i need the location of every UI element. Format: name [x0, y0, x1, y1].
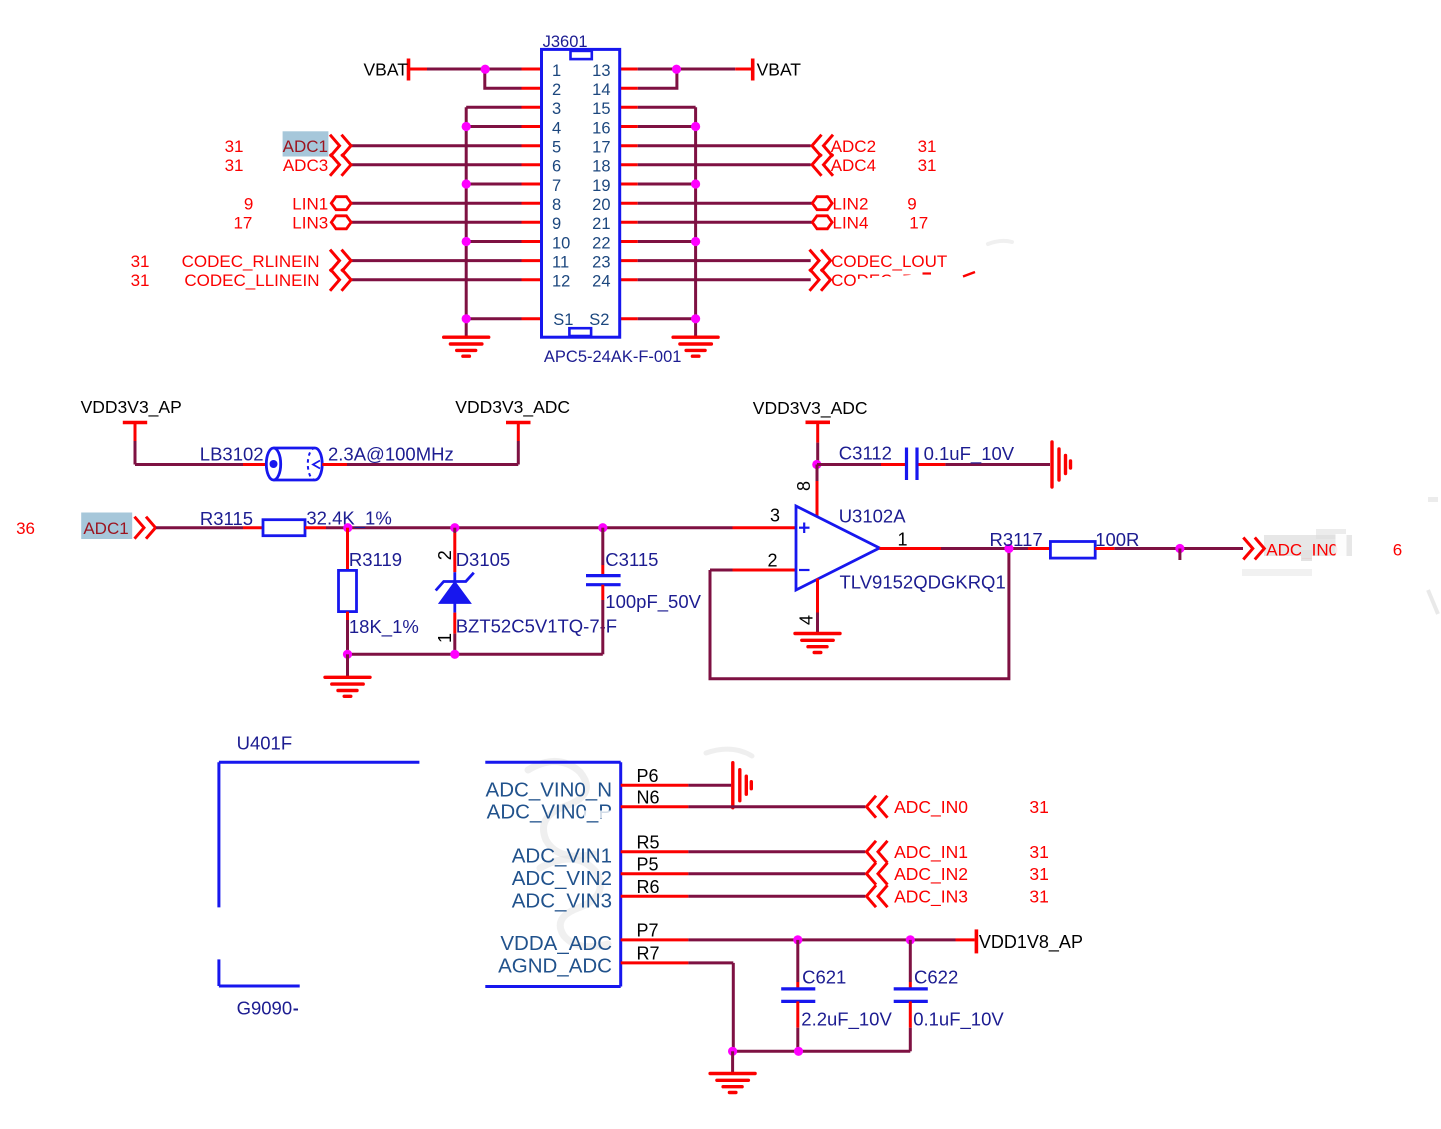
svg-text:2: 2: [552, 81, 561, 99]
svg-text:LIN3: LIN3: [292, 214, 328, 233]
svg-text:22: 22: [592, 234, 610, 252]
svg-text:C622: C622: [914, 967, 958, 988]
svg-text:3: 3: [770, 506, 780, 526]
svg-text:31: 31: [225, 137, 244, 156]
svg-text:S2: S2: [589, 311, 609, 329]
svg-text:2.2uF_10V: 2.2uF_10V: [801, 1009, 892, 1031]
svg-text:VDD3V3_AP: VDD3V3_AP: [81, 397, 182, 418]
svg-text:C621: C621: [802, 967, 846, 988]
svg-text:17: 17: [909, 214, 928, 233]
svg-text:R3115: R3115: [200, 508, 253, 529]
svg-text:ADC_IN2: ADC_IN2: [894, 864, 968, 885]
svg-text:CODEC_LLINEIN: CODEC_LLINEIN: [184, 271, 319, 290]
svg-text:17: 17: [233, 214, 252, 233]
svg-text:4: 4: [552, 119, 561, 137]
svg-text:ADC1: ADC1: [83, 519, 128, 538]
svg-text:P6: P6: [637, 766, 659, 786]
svg-text:ADC1: ADC1: [283, 137, 328, 156]
svg-text:13: 13: [592, 62, 610, 80]
svg-text:R7: R7: [637, 944, 660, 964]
svg-text:1: 1: [435, 633, 455, 643]
svg-text:31: 31: [131, 271, 150, 290]
svg-text:CODEC_LOUT: CODEC_LOUT: [831, 252, 947, 271]
svg-text:VBAT: VBAT: [364, 60, 409, 80]
svg-text:100R: 100R: [1095, 529, 1139, 550]
svg-text:ADC_VIN1: ADC_VIN1: [512, 844, 612, 867]
svg-text:19: 19: [592, 177, 610, 195]
svg-text:P7: P7: [637, 921, 659, 941]
svg-text:18K_1%: 18K_1%: [349, 616, 419, 638]
svg-text:ADC_VIN3: ADC_VIN3: [512, 889, 612, 912]
svg-text:36: 36: [16, 519, 35, 538]
svg-text:8: 8: [552, 196, 561, 214]
svg-text:1: 1: [898, 530, 908, 550]
svg-text:16: 16: [592, 119, 610, 137]
svg-text:VDD3V3_ADC: VDD3V3_ADC: [455, 397, 570, 418]
svg-text:VDD1V8_AP: VDD1V8_AP: [979, 932, 1083, 953]
svg-text:6: 6: [552, 158, 561, 176]
svg-text:3: 3: [552, 100, 561, 118]
svg-text:ADC4: ADC4: [831, 156, 876, 175]
svg-text:20: 20: [592, 196, 610, 214]
svg-text:8: 8: [794, 481, 814, 491]
svg-text:ADC_VIN2: ADC_VIN2: [512, 867, 612, 890]
svg-text:24: 24: [592, 273, 610, 291]
svg-text:31: 31: [1029, 886, 1048, 906]
svg-text:N6: N6: [637, 787, 660, 807]
svg-text:0.1uF_10V: 0.1uF_10V: [913, 1009, 1004, 1031]
svg-text:LIN2: LIN2: [833, 194, 869, 213]
svg-text:7: 7: [552, 177, 561, 195]
svg-text:APC5-24AK-F-001: APC5-24AK-F-001: [544, 348, 682, 366]
svg-text:23: 23: [592, 253, 610, 271]
svg-text:R5: R5: [637, 833, 660, 853]
svg-text:9: 9: [907, 194, 916, 213]
svg-text:2.3A@100MHz: 2.3A@100MHz: [328, 444, 454, 465]
svg-text:15: 15: [592, 100, 610, 118]
svg-text:AGND_ADC: AGND_ADC: [498, 954, 612, 977]
svg-text:9: 9: [244, 194, 253, 213]
svg-text:31: 31: [131, 252, 150, 271]
svg-text:LB3102: LB3102: [200, 444, 264, 465]
svg-text:11: 11: [552, 253, 569, 271]
svg-text:2: 2: [768, 551, 778, 571]
svg-text:VDDA_ADC: VDDA_ADC: [500, 932, 612, 955]
svg-text:D3105: D3105: [456, 549, 511, 570]
svg-text:1: 1: [552, 62, 561, 80]
svg-text:R3119: R3119: [349, 549, 402, 570]
svg-text:5: 5: [552, 139, 561, 157]
svg-text:12: 12: [552, 273, 570, 291]
svg-text:ADC_IN1: ADC_IN1: [894, 842, 968, 863]
svg-text:U401F: U401F: [237, 733, 293, 754]
svg-text:0.1uF_10V: 0.1uF_10V: [924, 443, 1015, 465]
svg-text:P5: P5: [637, 854, 659, 874]
svg-text:6: 6: [1393, 541, 1402, 560]
svg-text:LIN4: LIN4: [833, 214, 869, 233]
svg-text:31: 31: [1029, 842, 1048, 862]
svg-text:14: 14: [592, 81, 610, 99]
svg-text:18: 18: [592, 158, 610, 176]
svg-text:G9090: G9090: [237, 998, 293, 1019]
svg-text:10: 10: [552, 234, 570, 252]
svg-text:2: 2: [435, 550, 455, 560]
svg-text:LIN1: LIN1: [292, 194, 328, 213]
svg-text:17: 17: [592, 139, 610, 157]
svg-text:31: 31: [1029, 797, 1048, 817]
svg-text:100pF_50V: 100pF_50V: [605, 591, 701, 613]
svg-text:VBAT: VBAT: [757, 60, 802, 80]
svg-text:ADC3: ADC3: [283, 156, 328, 175]
svg-text:9: 9: [552, 215, 561, 233]
svg-text:R6: R6: [637, 877, 660, 897]
svg-text:U3102A: U3102A: [839, 506, 907, 527]
svg-text:31: 31: [918, 137, 937, 156]
svg-text:C3115: C3115: [605, 549, 658, 570]
svg-text:TLV9152QDGKRQ1: TLV9152QDGKRQ1: [840, 572, 1006, 593]
svg-text:R3117: R3117: [990, 529, 1043, 550]
svg-text:ADC_VIN0_N: ADC_VIN0_N: [486, 778, 612, 801]
svg-text:ADC2: ADC2: [831, 137, 876, 156]
svg-text:BZT52C5V1TQ-7-F: BZT52C5V1TQ-7-F: [456, 616, 617, 637]
svg-text:4: 4: [797, 615, 817, 625]
svg-text:31: 31: [1029, 864, 1048, 884]
svg-text:31: 31: [225, 156, 244, 175]
svg-text:S1: S1: [553, 311, 573, 329]
svg-text:ADC_IN3: ADC_IN3: [894, 886, 968, 907]
svg-text:31: 31: [918, 156, 937, 175]
svg-text:C3112: C3112: [839, 442, 892, 463]
svg-text:VDD3V3_ADC: VDD3V3_ADC: [753, 398, 868, 419]
svg-text:ADC_IN0: ADC_IN0: [894, 797, 968, 818]
svg-text:21: 21: [592, 215, 610, 233]
svg-text:CODEC_RLINEIN: CODEC_RLINEIN: [182, 252, 320, 271]
svg-text:J3601: J3601: [543, 33, 588, 51]
